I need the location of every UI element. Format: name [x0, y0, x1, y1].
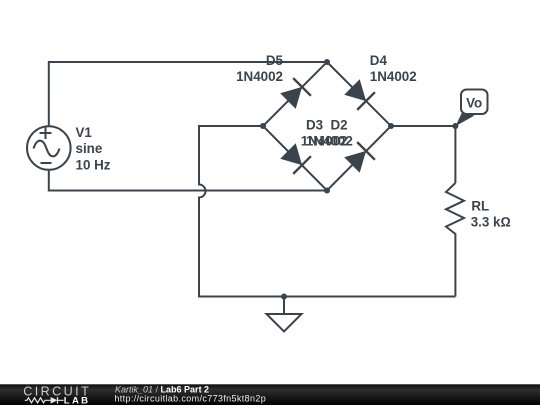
svg-text:1N4002: 1N4002 — [306, 133, 353, 148]
svg-text:3.3 kΩ: 3.3 kΩ — [471, 214, 511, 229]
svg-text:D2: D2 — [331, 117, 348, 132]
svg-text:10 Hz: 10 Hz — [76, 157, 111, 172]
svg-text:D5: D5 — [266, 53, 284, 68]
svg-text:Vo: Vo — [466, 95, 482, 110]
svg-text:D4: D4 — [370, 53, 388, 68]
svg-text:sine: sine — [76, 141, 103, 156]
svg-text:RL: RL — [471, 198, 489, 213]
svg-text:1N4002: 1N4002 — [370, 69, 417, 84]
svg-text:http://circuitlab.com/c773fn5k: http://circuitlab.com/c773fn5kt8n2p — [114, 394, 266, 404]
svg-text:LAB: LAB — [64, 395, 91, 405]
svg-text:V1: V1 — [76, 125, 93, 140]
svg-text:1N4002: 1N4002 — [236, 69, 283, 84]
svg-text:D3: D3 — [306, 117, 323, 132]
